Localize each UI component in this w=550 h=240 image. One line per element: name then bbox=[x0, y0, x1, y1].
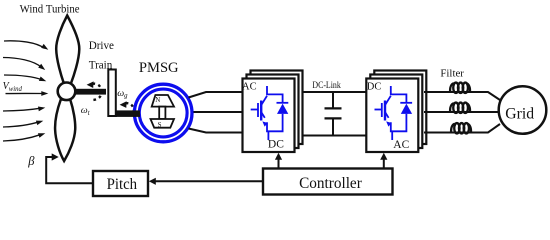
diode D1 (rectifier freewheel) bbox=[277, 103, 289, 114]
rectifier stacked box back bbox=[251, 71, 303, 145]
rotor magnet S pole bbox=[151, 119, 175, 128]
IGBT Q2 (inverter switch) bbox=[375, 86, 407, 140]
filter inductor L1 bbox=[450, 83, 470, 93]
rotation arrow omega_t (dashed arc) bbox=[87, 81, 102, 100]
svg-text:DC: DC bbox=[268, 139, 284, 151]
inverter box (DC/AC converter) bbox=[366, 79, 418, 153]
svg-text:DC: DC bbox=[367, 81, 382, 92]
svg-text:Pitch: Pitch bbox=[107, 176, 138, 193]
DC bus top wire bbox=[303, 91, 367, 93]
inverter stacked box back bbox=[374, 71, 426, 145]
DC bus bottom wire bbox=[303, 135, 367, 137]
phase wire PMSG to rectifier (middle) bbox=[194, 111, 243, 113]
IGBT Q1 (rectifier switch) bbox=[251, 86, 283, 140]
svg-text:Drive: Drive bbox=[89, 40, 114, 52]
turbine lower blade bbox=[55, 100, 75, 162]
control wire controller to inverter bbox=[380, 153, 387, 169]
rotor magnet N pole bbox=[152, 95, 174, 107]
filter inductor L2 bbox=[450, 103, 470, 113]
svg-text:β: β bbox=[27, 154, 35, 168]
DC-link capacitor C1 bbox=[325, 92, 342, 136]
phase wire inverter to grid (top) bbox=[424, 92, 500, 100]
svg-text:Grid: Grid bbox=[505, 106, 534, 123]
turbine hub bbox=[58, 83, 76, 101]
rotation arrow omega_g (dashed arc) bbox=[120, 101, 134, 110]
wind arrow 6 bbox=[3, 121, 43, 127]
wind arrow 2 bbox=[3, 58, 45, 71]
svg-text:Wind Turbine: Wind Turbine bbox=[20, 4, 80, 16]
phase wire inverter to grid (middle) bbox=[424, 111, 499, 113]
control wire controller to rectifier bbox=[275, 153, 282, 169]
filter inductor L3 bbox=[451, 123, 471, 133]
phase wire inverter to grid (bottom) bbox=[424, 124, 500, 133]
controller box bbox=[263, 169, 393, 195]
svg-text:Controller: Controller bbox=[299, 175, 363, 192]
rectifier box (AC/DC converter) bbox=[243, 79, 295, 153]
svg-text:DC-Link: DC-Link bbox=[312, 81, 341, 91]
low-speed shaft from hub to gearbox bbox=[74, 89, 106, 95]
inverter stacked box middle bbox=[370, 75, 422, 149]
rectifier stacked box middle bbox=[247, 75, 299, 149]
wind arrow 5 bbox=[3, 107, 45, 112]
grid circle bbox=[499, 86, 547, 134]
rotor magnet bar bbox=[159, 107, 165, 119]
turbine upper blade bbox=[56, 16, 79, 84]
gearbox (drive train) rectangle bbox=[108, 70, 116, 117]
svg-text:AC: AC bbox=[242, 81, 257, 92]
wind arrow 3 bbox=[4, 75, 46, 81]
PMSG generator outer ring bbox=[134, 84, 192, 142]
wind arrow 4 bbox=[6, 91, 49, 96]
diode D2 (inverter freewheel) bbox=[400, 103, 412, 114]
PMSG generator inner ring bbox=[139, 89, 187, 137]
wind arrow 7 bbox=[3, 133, 45, 141]
control wire controller to pitch bbox=[149, 178, 263, 185]
svg-text:AC: AC bbox=[393, 139, 409, 151]
svg-text:PMSG: PMSG bbox=[139, 60, 179, 76]
phase wire PMSG to rectifier (top) bbox=[189, 92, 243, 98]
high-speed shaft from gearbox to PMSG bbox=[116, 110, 140, 117]
svg-text:Filter: Filter bbox=[440, 68, 464, 79]
svg-text:S: S bbox=[158, 121, 162, 129]
svg-text:N: N bbox=[155, 96, 160, 104]
pitch actuation wire to blade bbox=[46, 153, 93, 183]
phase wire PMSG to rectifier (bottom) bbox=[189, 129, 243, 133]
wind arrow 1 bbox=[4, 41, 48, 50]
pitch box bbox=[93, 171, 148, 196]
